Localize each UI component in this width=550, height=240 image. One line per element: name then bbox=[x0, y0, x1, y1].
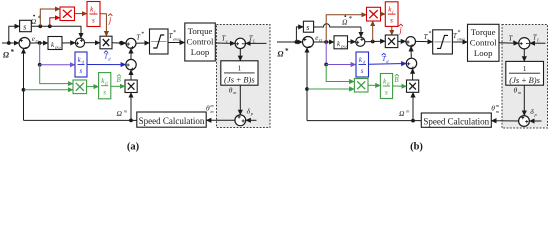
plant summer Te minus TL (a) bbox=[235, 38, 245, 48]
integrator block k_j/s (a) bbox=[87, 2, 100, 27]
wire summer 2 to main multiplier (b) bbox=[365, 40, 385, 43]
gain block k_p-omega (b) bbox=[334, 36, 348, 49]
svg-text:Torque: Torque bbox=[188, 26, 213, 36]
svg-text:j: j bbox=[108, 16, 112, 25]
wire error down to disturbance integrator (a) bbox=[39, 43, 41, 65]
wire gain to summer 2 (a) bbox=[62, 42, 75, 44]
wire multiplier to summer 3 (b) bbox=[398, 40, 406, 42]
position summer with quantization error (b) bbox=[519, 116, 530, 127]
svg-text:*: * bbox=[141, 32, 144, 38]
svg-text:s: s bbox=[23, 23, 26, 32]
svg-text:(Js + B)s: (Js + B)s bbox=[509, 75, 540, 85]
svg-text:pω: pω bbox=[54, 44, 60, 49]
svg-text:*: * bbox=[10, 48, 14, 56]
wire s output with hop to summer 2 top (b) bbox=[314, 24, 361, 27]
svg-text:Torque: Torque bbox=[471, 27, 496, 37]
svg-text:B: B bbox=[394, 76, 399, 84]
wire J estimate to torque multiplier (a) bbox=[100, 14, 106, 36]
svg-text:m: m bbox=[496, 109, 499, 114]
wire purple to k_d integrator (a) bbox=[40, 64, 75, 66]
torque control loop block (b) bbox=[468, 24, 500, 61]
mechanical plant block 1/((Js+B)s) (b) bbox=[506, 61, 544, 85]
saturation limiter block (b) bbox=[433, 30, 453, 54]
svg-text:Speed Calculation: Speed Calculation bbox=[423, 116, 489, 126]
svg-text:d: d bbox=[386, 59, 389, 64]
junction after torque multiplier (a) bbox=[119, 41, 123, 45]
wire speed feedback up to summer 1 (a) bbox=[23, 49, 25, 121]
wire speed to friction multiplier lower input (b) bbox=[307, 88, 354, 90]
wire plant summer to mechanics block (a) bbox=[239, 49, 241, 61]
summer 1 speed error (b) bbox=[303, 37, 314, 48]
svg-text:Loop: Loop bbox=[474, 48, 493, 58]
wire error to gain k_p (a) bbox=[30, 42, 48, 44]
wire s output to summer 2 top (a) bbox=[31, 26, 81, 38]
svg-text:e: e bbox=[513, 38, 515, 43]
svg-text:s: s bbox=[390, 17, 393, 25]
svg-text:Control: Control bbox=[187, 37, 214, 47]
svg-text:m: m bbox=[210, 109, 213, 114]
summer 1 speed error (a) bbox=[19, 38, 30, 49]
svg-text:d: d bbox=[108, 56, 111, 61]
speed calculation block (a) bbox=[137, 112, 206, 127]
svg-text:θ: θ bbox=[514, 86, 518, 95]
wire multiplier to integrator k_j/s (b) bbox=[381, 13, 386, 15]
multiplier X inertia estimator (a) bbox=[60, 7, 75, 21]
junction error node (b) bbox=[324, 40, 328, 44]
wire load torque stub (a) bbox=[246, 42, 267, 44]
wire error down to friction estimator (a) bbox=[40, 65, 73, 84]
summer 3 torque command (a) bbox=[126, 38, 136, 48]
saturation limiter block (a) bbox=[150, 29, 169, 54]
svg-text:s: s bbox=[80, 67, 83, 75]
disturbance integrator k_d/s (a) bbox=[75, 52, 87, 77]
wire measured position to speed calculation (a) bbox=[206, 119, 235, 121]
svg-text:1: 1 bbox=[238, 64, 242, 73]
multiplier X friction estimator (b) bbox=[354, 79, 368, 93]
wire tap up to multiplier bottom input (b) bbox=[372, 21, 374, 41]
wire measured speed feedback (a) bbox=[24, 119, 137, 121]
summer 2 feedforward add (b) bbox=[356, 37, 365, 46]
svg-text:s: s bbox=[92, 17, 95, 25]
wire electromagnetic torque Te (a) bbox=[215, 42, 235, 44]
svg-text:(b): (b) bbox=[410, 142, 423, 153]
svg-text:m: m bbox=[233, 90, 236, 95]
wire brown tap to multiplier upper input (a) bbox=[40, 9, 60, 26]
svg-text:Ω: Ω bbox=[3, 51, 9, 60]
svg-text:*: * bbox=[285, 47, 289, 55]
wire speed up to friction multiplier (b) bbox=[412, 93, 414, 121]
wire friction torque to summer 4 (b) bbox=[412, 69, 414, 80]
friction integrator k_beta/s (a) bbox=[99, 73, 111, 99]
wire plant summer to mechanics block (b) bbox=[523, 49, 525, 61]
plant summer Te minus TL (b) bbox=[519, 38, 530, 49]
svg-text:*: * bbox=[457, 30, 460, 36]
svg-text:(Js + B)s: (Js + B)s bbox=[224, 75, 255, 85]
summer 3 torque command (b) bbox=[406, 37, 416, 47]
wire gain to summer 2 (b) bbox=[348, 41, 356, 43]
svg-text:emag: emag bbox=[457, 38, 465, 42]
wire multiplier to integrator k_j/s (a) bbox=[75, 13, 87, 15]
junction measured speed node (b) bbox=[411, 119, 415, 123]
wire delta stub (a) bbox=[246, 119, 257, 121]
position summer with quantization error (a) bbox=[235, 115, 246, 126]
wire delta stub (b) bbox=[530, 120, 542, 122]
svg-text:Ω: Ω bbox=[342, 18, 348, 27]
svg-text:Ω: Ω bbox=[117, 109, 123, 118]
mechanical plant block 1/((Js+B)s) (a) bbox=[221, 61, 258, 85]
svg-text:m: m bbox=[518, 90, 521, 95]
svg-text:Ω: Ω bbox=[399, 109, 405, 118]
svg-text:e: e bbox=[226, 38, 228, 43]
wire summer 3 to saturation (a) bbox=[136, 42, 149, 44]
wire T_d-hat to summer 4 (b) bbox=[369, 63, 407, 66]
wire red tap to multiplier lower input (a) bbox=[50, 18, 60, 27]
wire speed up to friction multiplier (a) bbox=[130, 93, 132, 121]
svg-text:Control: Control bbox=[470, 38, 497, 48]
derivative block s (b) bbox=[303, 21, 313, 32]
wire summer 3 to saturation (b) bbox=[416, 40, 433, 42]
svg-text:*: * bbox=[173, 30, 176, 36]
wire B-hat to friction torque multiplier (a) bbox=[111, 85, 125, 87]
dashed plant model box (a) bbox=[217, 25, 271, 128]
svg-text:m: m bbox=[124, 108, 127, 113]
junction error purple node (b) bbox=[324, 63, 328, 67]
junction error purple node (a) bbox=[38, 63, 42, 67]
wire measured position to speed calculation (b) bbox=[492, 120, 519, 122]
junction feedforward tap (b) bbox=[371, 40, 375, 44]
svg-text:m: m bbox=[406, 108, 409, 113]
svg-text:θ: θ bbox=[206, 104, 210, 113]
wire purple to k_d integrator (b) bbox=[326, 64, 355, 66]
wire summer 2 to torque multiplier (a) bbox=[85, 42, 100, 44]
svg-text:*: * bbox=[428, 31, 431, 37]
summer 4 disturbance add (a) bbox=[126, 59, 136, 69]
torque control loop block (a) bbox=[185, 23, 216, 61]
wire error down to friction estimator (b) bbox=[326, 65, 354, 82]
dashed plant model box (b) bbox=[502, 25, 548, 129]
wire speed feedback up to summer 1 (b) bbox=[306, 48, 308, 121]
svg-text:*: * bbox=[348, 15, 352, 23]
svg-text:pω: pω bbox=[340, 44, 346, 49]
junction measured speed node (a) bbox=[129, 119, 133, 123]
summer 4 disturbance add (b) bbox=[406, 58, 416, 68]
svg-text:emag: emag bbox=[173, 38, 181, 42]
junction speed tap for friction estimator (b) bbox=[305, 87, 309, 91]
integrator block k_j/s (b) bbox=[385, 2, 398, 27]
junction speed tap for friction estimator (a) bbox=[22, 88, 26, 92]
svg-text:1: 1 bbox=[523, 64, 527, 73]
multiplier X friction torque (a) bbox=[125, 80, 137, 93]
wire position to quantizer summer (b) bbox=[523, 85, 525, 115]
disturbance integrator k_d/s (b) bbox=[356, 52, 369, 77]
svg-text:θ: θ bbox=[491, 104, 495, 113]
svg-text:Ω: Ω bbox=[31, 17, 37, 26]
wire speed to friction multiplier lower input (a) bbox=[24, 89, 73, 91]
wire saturation to torque control loop (b) bbox=[452, 41, 467, 43]
wire T_d-hat to summer 4 (a) bbox=[87, 64, 126, 66]
junction error node (a) bbox=[38, 41, 42, 45]
multiplier X torque scaling (b) bbox=[385, 35, 398, 48]
junction second tap (a) bbox=[48, 24, 52, 28]
wire J estimate down to main multiplier (b) bbox=[391, 26, 393, 34]
multiplier X torque scaling (a) bbox=[100, 36, 112, 49]
wire friction torque to summer 4 (a) bbox=[130, 70, 132, 80]
svg-text:s: s bbox=[385, 89, 388, 97]
svg-text:L: L bbox=[252, 38, 256, 43]
wire electromagnetic torque Te (b) bbox=[499, 42, 519, 44]
svg-text:s: s bbox=[306, 23, 309, 32]
svg-text:Speed Calculation: Speed Calculation bbox=[139, 116, 205, 126]
svg-text:θ: θ bbox=[229, 86, 233, 95]
wire summer 4 to summer 3 (b) bbox=[410, 46, 412, 58]
gain block k_p-omega (a) bbox=[48, 37, 62, 50]
svg-text:Loop: Loop bbox=[191, 47, 210, 57]
svg-text:s: s bbox=[103, 88, 106, 96]
svg-text:s: s bbox=[361, 67, 364, 75]
wire measured speed feedback (b) bbox=[307, 120, 421, 122]
svg-text:B: B bbox=[117, 76, 122, 84]
wire error down to disturbance integrator (b) bbox=[325, 42, 327, 65]
wire error to gain k_p (b) bbox=[314, 41, 334, 43]
wire saturation to torque control loop (a) bbox=[168, 42, 185, 44]
svg-text:m: m bbox=[210, 103, 213, 108]
multiplier X friction torque (b) bbox=[407, 80, 419, 92]
multiplier X friction estimator (a) bbox=[73, 80, 87, 94]
node speed reference input wire (a) bbox=[2, 42, 19, 44]
svg-text:j: j bbox=[399, 26, 403, 35]
wire B-hat to friction torque multiplier (b) bbox=[393, 85, 407, 87]
multiplier X inertia estimator (b) bbox=[367, 7, 381, 21]
wire summer 4 to summer 3 (a) bbox=[130, 49, 132, 60]
derivative block s (a) bbox=[20, 20, 32, 31]
wire load torque stub (b) bbox=[530, 42, 545, 44]
wire friction multiplier to integrator (a) bbox=[87, 86, 99, 88]
friction integrator k_beta/s (b) bbox=[380, 74, 392, 99]
wire reference to derivative block s (a) bbox=[9, 26, 20, 43]
wire multiplier to summer 3 (a) bbox=[112, 42, 126, 44]
svg-text:(a): (a) bbox=[127, 142, 140, 153]
wire error up to multiplier left input (b) bbox=[326, 15, 366, 42]
wire friction multiplier to integrator (b) bbox=[368, 84, 380, 86]
node speed reference input wire (b) bbox=[277, 41, 302, 43]
speed calculation block (b) bbox=[421, 113, 491, 127]
svg-text:Ω: Ω bbox=[278, 50, 284, 59]
svg-text:L: L bbox=[536, 38, 540, 43]
svg-text:m: m bbox=[496, 103, 499, 108]
junction dOmega tap (a) bbox=[38, 24, 42, 28]
summer 2 feedforward add (a) bbox=[75, 38, 84, 47]
wire position to quantizer summer (a) bbox=[239, 85, 241, 115]
wire reference to derivative block s (b) bbox=[296, 27, 303, 42]
